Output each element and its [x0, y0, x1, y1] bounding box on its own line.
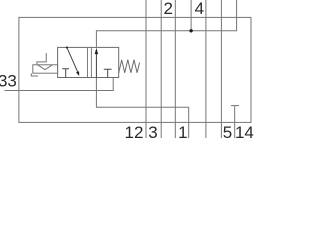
valve blocked port right [104, 69, 112, 77]
svg-text:5: 5 [223, 123, 232, 138]
svg-text:14: 14 [235, 123, 254, 138]
solenoid wire [37, 53, 46, 65]
svg-text:4: 4 [195, 0, 204, 18]
solenoid box [33, 65, 58, 73]
enclosure box [19, 17, 251, 122]
svg-text:12: 12 [125, 123, 144, 138]
wire rail 4 right [205, 0, 207, 138]
valve blocked port left [62, 69, 69, 78]
wire rail 12 [145, 0, 147, 138]
wire pilot line from valve to 14 channel [96, 0, 236, 47]
wire pilot 4 stub [190, 0, 192, 31]
svg-text:33: 33 [0, 71, 17, 90]
solenoid coil U1 [31, 53, 57, 76]
wire port 1 path [96, 78, 188, 139]
plug port 14 [231, 106, 239, 138]
node junction [189, 29, 192, 32]
wire rail 5 [220, 0, 222, 138]
svg-text:3: 3 [148, 123, 157, 138]
valve flow path diagonal with arrow [66, 47, 79, 76]
svg-text:1: 1 [178, 123, 187, 138]
wire port 33 path [5, 78, 114, 91]
solenoid plug [31, 73, 38, 76]
spring return [119, 60, 140, 73]
svg-text:2: 2 [163, 0, 172, 18]
valve straight passage with up arrow [95, 48, 98, 78]
solenoid zigzag [38, 65, 52, 70]
wire rail 2 left [160, 0, 162, 138]
valve V1 body [58, 47, 119, 77]
wire rail 2 right / 3 [174, 0, 176, 138]
